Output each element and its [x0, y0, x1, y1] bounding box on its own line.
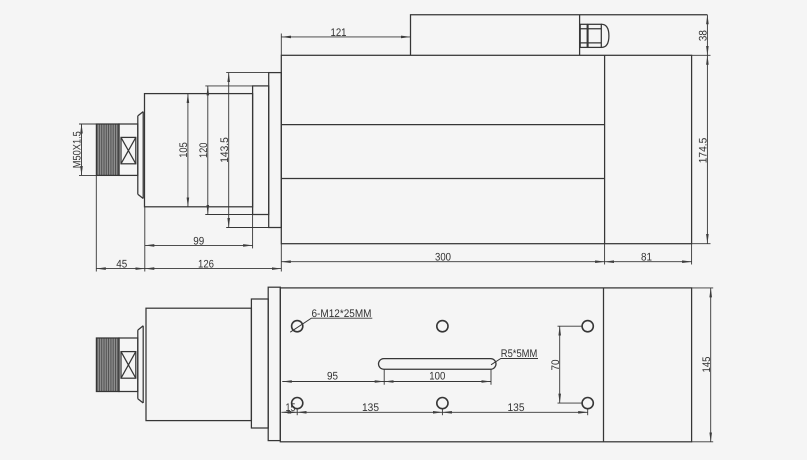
svg-text:135: 135	[362, 402, 379, 414]
dim 105	[187, 94, 189, 207]
plate divider	[603, 288, 605, 442]
ring section (plan)	[251, 299, 268, 428]
mounting hole bottom-left	[292, 398, 303, 409]
dim 174.5	[692, 55, 711, 243]
nose housing (plan)	[146, 308, 251, 420]
svg-text:95: 95	[327, 371, 338, 383]
svg-text:6-M12*25MM: 6-M12*25MM	[312, 308, 372, 320]
nose housing cylinder (dia 105)	[145, 94, 253, 207]
shaft section between nut and nose cap	[119, 124, 138, 175]
nose cap disc	[138, 112, 143, 199]
nose cap disc (plan)	[138, 326, 143, 403]
svg-text:135: 135	[508, 402, 525, 414]
mounting hole top-right	[582, 321, 593, 332]
dim 15	[282, 409, 298, 415]
mounting hole bottom-middle	[437, 398, 448, 409]
terminal box divider	[579, 15, 581, 56]
dim 143.5	[226, 73, 269, 228]
svg-text:70: 70	[550, 360, 562, 371]
mounting hole top-left	[292, 321, 303, 332]
terminal box block on top	[411, 15, 708, 56]
main body	[281, 55, 691, 243]
dim 45	[96, 176, 145, 272]
svg-text:15: 15	[286, 402, 296, 414]
mounting hole top-middle	[437, 321, 448, 332]
svg-text:300: 300	[435, 252, 451, 264]
svg-text:105: 105	[178, 142, 190, 158]
body internal line upper	[281, 124, 604, 126]
svg-text:38: 38	[698, 30, 710, 41]
dim 300	[281, 244, 604, 272]
slot R5x5	[379, 359, 497, 370]
svg-text:174.5: 174.5	[698, 138, 710, 164]
dim 70	[558, 326, 582, 403]
ring section (dia 120)	[253, 86, 269, 215]
svg-text:R5*5MM: R5*5MM	[501, 348, 538, 360]
dim 95	[282, 381, 384, 383]
front flange disc (dia 143.5)	[269, 73, 282, 228]
svg-text:143.5: 143.5	[219, 137, 231, 163]
shaft section (plan)	[119, 338, 138, 392]
dim 100	[384, 369, 491, 385]
svg-text:121: 121	[331, 27, 347, 39]
collet nut (plan)	[96, 338, 119, 392]
dim 38	[706, 15, 708, 56]
body divider (300/81)	[604, 55, 606, 243]
svg-text:99: 99	[193, 235, 204, 247]
svg-text:45: 45	[116, 259, 127, 271]
dim 145	[692, 288, 714, 442]
leader 6-M12*25MM	[290, 318, 372, 332]
dim 135 right	[442, 409, 587, 415]
svg-text:126: 126	[198, 259, 214, 271]
cable gland flats lines	[580, 29, 601, 43]
svg-text:M50X1.5: M50X1.5	[72, 131, 84, 168]
svg-text:100: 100	[429, 371, 445, 383]
bearing cross-box symbol	[121, 137, 136, 163]
svg-text:120: 120	[198, 143, 210, 159]
dim M50X1.5	[79, 124, 97, 175]
front flange disc (plan)	[268, 287, 280, 440]
mounting plate	[280, 288, 691, 442]
mounting hole bottom-right	[582, 398, 593, 409]
dim 126	[145, 268, 281, 270]
bearing cross-box symbol (plan)	[121, 352, 136, 379]
body internal line lower	[281, 178, 604, 180]
dim 81	[605, 244, 692, 265]
collet nut (knurled, M50 thread)	[96, 124, 119, 175]
cable gland dome	[601, 24, 609, 47]
dim 99	[145, 207, 253, 249]
cable gland body	[588, 24, 601, 47]
dim 135 left	[297, 409, 442, 415]
dim 121	[281, 34, 410, 56]
svg-text:81: 81	[641, 252, 652, 264]
svg-text:145: 145	[701, 357, 713, 373]
leader R5*5MM	[491, 359, 538, 365]
cable gland locknut	[580, 24, 587, 47]
dim 120	[205, 86, 252, 215]
